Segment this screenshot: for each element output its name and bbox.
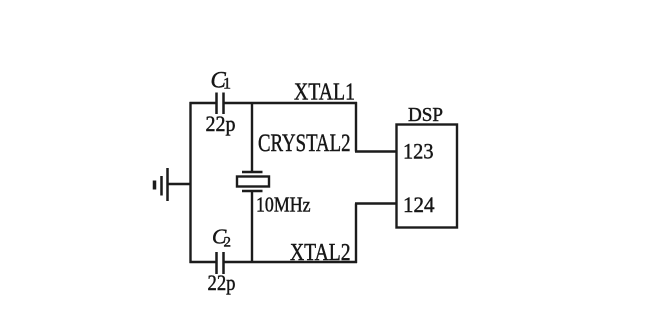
svg-text:XTAL1: XTAL1 xyxy=(294,79,355,105)
svg-text:2: 2 xyxy=(224,235,232,251)
svg-text:22p: 22p xyxy=(206,111,236,136)
svg-text:124: 124 xyxy=(403,192,435,217)
svg-text:10MHz: 10MHz xyxy=(256,193,311,217)
svg-text:123: 123 xyxy=(403,139,434,164)
svg-text:XTAL2: XTAL2 xyxy=(290,240,351,266)
svg-text:DSP: DSP xyxy=(408,104,443,126)
svg-text:1: 1 xyxy=(223,76,231,93)
svg-text:22p: 22p xyxy=(208,270,236,295)
svg-text:CRYSTAL2: CRYSTAL2 xyxy=(258,130,351,157)
